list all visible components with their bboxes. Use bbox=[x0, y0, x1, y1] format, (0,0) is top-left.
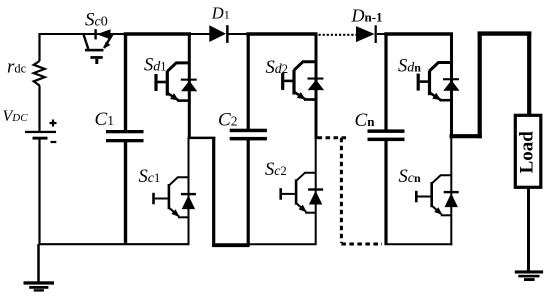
svg-text:C1: C1 bbox=[95, 109, 114, 130]
svg-text:C2: C2 bbox=[218, 110, 237, 131]
svg-text:Cn: Cn bbox=[355, 110, 376, 131]
svg-text:Load: Load bbox=[516, 131, 537, 174]
